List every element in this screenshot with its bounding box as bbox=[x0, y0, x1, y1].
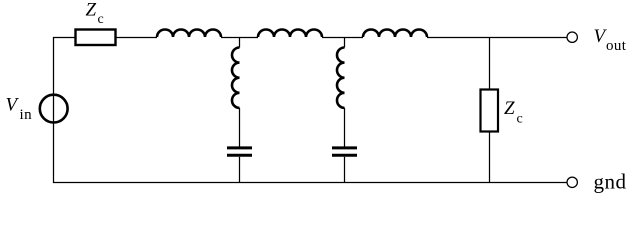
wire load branch upper bbox=[489, 37, 491, 89]
resistor Zc (load, right) bbox=[481, 90, 499, 132]
wire top rail segment 4 bbox=[322, 37, 363, 39]
svg-text:out: out bbox=[606, 38, 627, 54]
inductor L1 (series) bbox=[157, 30, 221, 38]
svg-text:c: c bbox=[98, 12, 104, 27]
inductor L5 (shunt branch 2) bbox=[337, 48, 345, 108]
node junction 2 / wire shunt branch 2 upper bbox=[344, 37, 346, 48]
wire left vertical (input branch) bbox=[53, 37, 55, 183]
svg-text:Z: Z bbox=[86, 0, 97, 21]
svg-text:Z: Z bbox=[504, 98, 515, 119]
voltage source Vin bbox=[40, 95, 68, 123]
label Vout bbox=[594, 26, 627, 54]
wire top rail segment 1 bbox=[53, 37, 75, 39]
wire bottom rail bbox=[53, 182, 567, 184]
label Zc (right) bbox=[504, 98, 523, 126]
capacitor C1 (shunt branch 1) bbox=[227, 148, 252, 155]
resistor Zc (series, left) bbox=[76, 30, 116, 46]
inductor L3 (series) bbox=[363, 30, 427, 38]
inductor L2 (series) bbox=[258, 30, 322, 38]
svg-text:c: c bbox=[517, 112, 523, 127]
svg-text:in: in bbox=[20, 107, 33, 123]
capacitor C2 (shunt branch 2) bbox=[332, 148, 357, 155]
terminal gnd bbox=[567, 177, 577, 187]
wire shunt branch 2 middle bbox=[344, 108, 346, 147]
wire top rail segment 3 bbox=[221, 37, 258, 39]
wire top rail segment 5 bbox=[427, 37, 567, 39]
wire load branch lower bbox=[489, 132, 491, 184]
terminal Vout bbox=[567, 32, 577, 42]
svg-text:gnd: gnd bbox=[594, 170, 627, 194]
wire shunt branch 2 lower bbox=[344, 157, 346, 183]
wire top rail segment 2 bbox=[116, 37, 157, 39]
label Zc (left) bbox=[86, 0, 104, 27]
label Vin bbox=[6, 95, 33, 123]
inductor L4 (shunt branch 1) bbox=[232, 48, 240, 108]
node junction 1 / wire shunt branch 1 upper bbox=[239, 37, 241, 48]
wire shunt branch 1 middle bbox=[239, 108, 241, 147]
wire shunt branch 1 lower bbox=[239, 157, 241, 183]
